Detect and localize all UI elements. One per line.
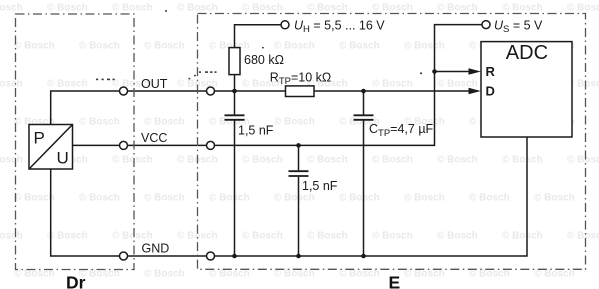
svg-text:© Bosch: © Bosch [307, 3, 348, 14]
svg-text:R: R [486, 64, 496, 79]
svg-text:© Bosch: © Bosch [274, 193, 315, 204]
svg-text:© Bosch: © Bosch [47, 231, 88, 242]
svg-text:© Bosch: © Bosch [112, 155, 153, 166]
svg-text:© Bosch: © Bosch [372, 3, 413, 14]
node junction C2 on VCC [296, 143, 301, 148]
boundary Dr dashed box [16, 14, 135, 270]
svg-text:© Bosch: © Bosch [534, 269, 575, 280]
connector GND left [120, 252, 128, 260]
boundary E dashed box [198, 14, 586, 270]
svg-text:OUT: OUT [141, 77, 168, 91]
connector OUT left [120, 87, 128, 95]
svg-text:© Bosch: © Bosch [307, 231, 348, 242]
svg-text:© Bosch: © Bosch [404, 269, 445, 280]
wire OUT net: sensor top to ADC D input [51, 91, 469, 125]
svg-text:© Bosch: © Bosch [567, 3, 599, 14]
svg-text:© Bosch: © Bosch [339, 193, 380, 204]
svg-text:© Bosch: © Bosch [144, 269, 185, 280]
svg-text:© Bosch: © Bosch [437, 155, 478, 166]
svg-text:ADC: ADC [506, 42, 548, 64]
node junction 680k/C1 on OUT [232, 89, 237, 94]
svg-text:© Bosch: © Bosch [502, 3, 543, 14]
op block ADC [481, 42, 572, 137]
svg-text:680 kΩ: 680 kΩ [244, 53, 284, 67]
svg-text:© Bosch: © Bosch [339, 41, 380, 52]
svg-text:© Bosch: © Bosch [242, 155, 283, 166]
wire UH feed: terminal to resistor top [235, 25, 282, 48]
node junction C1 on GND [232, 254, 237, 259]
node junction R branch on Us vertical [432, 69, 437, 74]
svg-text:© Bosch: © Bosch [14, 193, 55, 204]
svg-text:© Bosch: © Bosch [242, 3, 283, 14]
svg-text:© Bosch: © Bosch [372, 79, 413, 90]
node junction CTP on GND [361, 254, 366, 259]
svg-text:© Bosch: © Bosch [0, 155, 23, 166]
wire GND net: sensor bottom to ADC bottom [51, 137, 527, 256]
svg-text:© Bosch: © Bosch [437, 231, 478, 242]
svg-text:© Bosch: © Bosch [372, 231, 413, 242]
svg-text:U: U [57, 148, 69, 167]
node junction CTP on OUT [361, 89, 366, 94]
capacitor C1 plates [225, 115, 245, 120]
capacitor C2 plates [289, 171, 309, 176]
svg-text:© Bosch: © Bosch [502, 231, 543, 242]
svg-text:© Bosch: © Bosch [242, 231, 283, 242]
svg-text:© Bosch: © Bosch [112, 3, 153, 14]
connector VCC left [120, 141, 128, 149]
svg-text:Dr: Dr [66, 273, 86, 289]
connector GND right [207, 252, 215, 260]
svg-text:© Bosch: © Bosch [372, 155, 413, 166]
svg-text:© Bosch: © Bosch [404, 193, 445, 204]
svg-text:© Bosch: © Bosch [567, 155, 599, 166]
svg-text:© Bosch: © Bosch [469, 269, 510, 280]
svg-text:D: D [486, 83, 495, 98]
wire capacitor CTP leads [363, 91, 365, 115]
svg-text:© Bosch: © Bosch [112, 231, 153, 242]
resistor RTP [286, 86, 315, 97]
node junction C2 on GND [296, 254, 301, 259]
svg-text:© Bosch: © Bosch [144, 117, 185, 128]
svg-text:© Bosch: © Bosch [274, 269, 315, 280]
svg-text:© Bosch: © Bosch [79, 41, 120, 52]
svg-text:© Bosch: © Bosch [437, 79, 478, 90]
resistor 680k [229, 48, 240, 75]
svg-text:© Bosch: © Bosch [404, 41, 445, 52]
svg-text:© Bosch: © Bosch [339, 269, 380, 280]
svg-text:E: E [389, 273, 401, 289]
svg-text:© Bosch: © Bosch [47, 3, 88, 14]
svg-text:© Bosch: © Bosch [79, 117, 120, 128]
svg-text:© Bosch: © Bosch [567, 231, 599, 242]
svg-text:© Bosch: © Bosch [534, 193, 575, 204]
svg-text:© Bosch: © Bosch [79, 193, 120, 204]
svg-text:© Bosch: © Bosch [469, 193, 510, 204]
wire VCC net: sensor right to Us vertical [73, 25, 483, 146]
svg-text:© Bosch: © Bosch [209, 193, 250, 204]
svg-text:© Bosch: © Bosch [274, 117, 315, 128]
svg-text:VCC: VCC [141, 131, 167, 145]
svg-text:© Bosch: © Bosch [307, 155, 348, 166]
wire capacitor C1 leads [234, 91, 236, 115]
capacitor CTP plates [354, 115, 374, 120]
svg-text:© Bosch: © Bosch [209, 269, 250, 280]
svg-text:© Bosch: © Bosch [0, 79, 23, 90]
wire resistor 680k bottom to OUT node [234, 75, 236, 91]
svg-text:1,5 nF: 1,5 nF [302, 179, 338, 193]
wire ADC R input from Us vertical [435, 71, 469, 73]
svg-text:© Bosch: © Bosch [274, 41, 315, 52]
connector OUT right [207, 87, 215, 95]
terminal UH [281, 21, 289, 29]
svg-text:© Bosch: © Bosch [0, 231, 23, 242]
svg-text:© Bosch: © Bosch [144, 193, 185, 204]
pin R arrow [469, 68, 481, 75]
sensor box P/U [29, 125, 73, 170]
terminal US [482, 21, 490, 29]
svg-text:GND: GND [142, 242, 170, 256]
svg-text:© Bosch: © Bosch [502, 155, 543, 166]
svg-text:© Bosch: © Bosch [0, 3, 23, 14]
wire capacitor C2 leads [298, 145, 300, 170]
pin D arrow [469, 88, 481, 95]
scan artifact dots [96, 10, 422, 80]
svg-text:© Bosch: © Bosch [14, 41, 55, 52]
svg-text:© Bosch: © Bosch [47, 79, 88, 90]
svg-text:© Bosch: © Bosch [177, 3, 218, 14]
svg-text:© Bosch: © Bosch [437, 3, 478, 14]
svg-text:P: P [34, 129, 45, 148]
svg-text:1,5 nF: 1,5 nF [238, 123, 274, 137]
connector VCC right [207, 141, 215, 149]
svg-text:© Bosch: © Bosch [144, 41, 185, 52]
